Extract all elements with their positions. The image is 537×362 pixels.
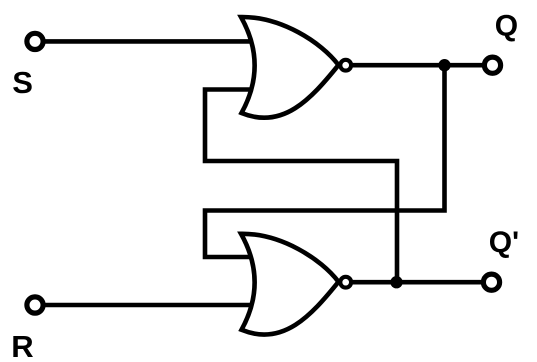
svg-text:Q: Q [495, 10, 518, 43]
svg-text:R: R [11, 329, 33, 362]
svg-text:S: S [12, 65, 33, 100]
svg-text:Q': Q' [489, 226, 519, 259]
